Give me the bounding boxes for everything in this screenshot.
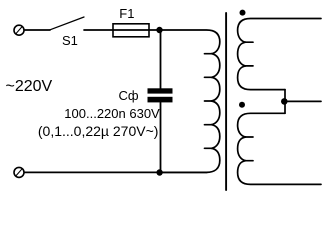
wire center tap output bbox=[284, 100, 321, 102]
wire terminal X1 to switch bbox=[24, 29, 50, 31]
label capacitor value line 2 bbox=[38, 123, 159, 139]
label S1 bbox=[62, 33, 78, 48]
node B junction dot (bottom rail) bbox=[156, 169, 162, 175]
transformer secondary winding 2 bbox=[238, 113, 321, 184]
wire node A down to capacitor bbox=[160, 30, 162, 88]
transformer core bbox=[225, 13, 227, 190]
wire switch contact to fuse bbox=[84, 29, 113, 31]
wire bottom rail X2 to primary bbox=[24, 171, 207, 173]
capacitor Cf bottom plate bbox=[148, 97, 173, 103]
wire capacitor to node B bbox=[160, 102, 162, 172]
label Cf bbox=[119, 88, 139, 103]
transformer T1 primary winding bbox=[160, 30, 220, 172]
transformer secondary winding 1 bbox=[238, 19, 321, 90]
wire through fuse to junction A bbox=[113, 29, 160, 31]
terminal X1 (top input pin) bbox=[14, 25, 24, 35]
node A junction dot (fuse output / capacitor top) bbox=[156, 27, 162, 33]
node C center-tap junction dot bbox=[281, 98, 288, 105]
switch S1 blade bbox=[50, 17, 84, 30]
wire secondary series link (vertical) bbox=[284, 90, 286, 114]
fuse F1 body bbox=[113, 24, 149, 37]
terminal X2 (bottom input pin) bbox=[14, 167, 24, 177]
label ~220V bbox=[6, 78, 53, 96]
capacitor Cf top plate bbox=[148, 88, 173, 93]
label F1 bbox=[119, 6, 134, 21]
phase dot secondary 2 bbox=[239, 102, 245, 108]
phase dot secondary 1 bbox=[240, 10, 246, 16]
label capacitor value line 1 bbox=[64, 106, 159, 121]
